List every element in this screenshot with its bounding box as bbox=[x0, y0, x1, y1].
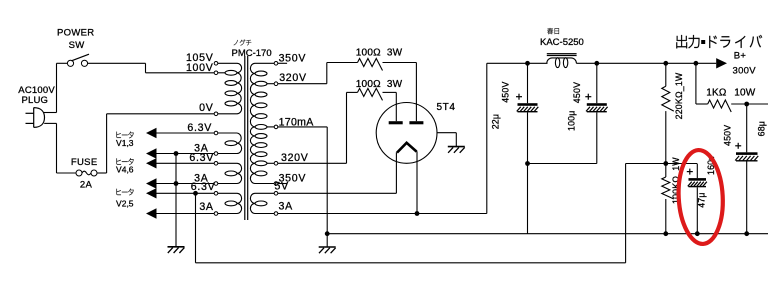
tube U1 anode plate right bbox=[409, 121, 423, 124]
heater tap arrow 3 bbox=[146, 158, 157, 168]
junction 1k branch bbox=[694, 61, 699, 66]
svg-text:V2,5: V2,5 bbox=[116, 199, 134, 209]
junction CT / ground bus bbox=[325, 231, 330, 236]
wire 350V top stub bbox=[278, 62, 287, 64]
wire 170mA center tap to ground bbox=[278, 126, 327, 128]
svg-text:5V: 5V bbox=[275, 180, 290, 192]
transformer T1 primary terminals bbox=[214, 62, 218, 66]
resistor R4 100KΩ 1W bbox=[665, 164, 667, 178]
junction R4 / ground bus bbox=[663, 231, 668, 236]
wire plug-top to switch bbox=[57, 62, 68, 64]
wire heater tap 1 bbox=[157, 132, 215, 134]
label heater ヒータ V1,3 bbox=[116, 131, 133, 138]
ground (heater windings) bbox=[168, 246, 185, 248]
ground (tube shield) bbox=[448, 146, 465, 148]
arrow B+ output bbox=[716, 58, 727, 68]
wire filament right leg bbox=[416, 151, 418, 213]
heater tap arrow 5 bbox=[146, 188, 157, 198]
tube U1 5T4 envelope bbox=[376, 102, 437, 163]
wire heater bias vertical to bottom bus bbox=[195, 193, 197, 262]
svg-text:PMC-170: PMC-170 bbox=[232, 48, 272, 59]
transformer T1 secondary HV winding bbox=[250, 63, 255, 183]
junction 3A-1 / ground drop bbox=[174, 151, 179, 156]
wire bias node bbox=[626, 163, 697, 165]
transformer T1 secondary lead wires bbox=[255, 62, 274, 64]
junction 100u cap bbox=[594, 61, 599, 66]
wire plug-bottom to fuse bbox=[44, 122, 56, 124]
svg-text:SW: SW bbox=[69, 40, 85, 51]
connector P1 AC plug bbox=[34, 108, 45, 128]
fuse F1 bbox=[76, 170, 82, 176]
wire ground bus bbox=[327, 233, 768, 235]
transformer T1 primary winding 100V bbox=[237, 63, 242, 114]
label 出力・ドライバ bbox=[676, 35, 687, 48]
transformer T1 heater winding 3 bbox=[237, 193, 242, 213]
svg-text:3W: 3W bbox=[387, 79, 403, 90]
resistor R3 220KΩ 1W bbox=[665, 63, 667, 86]
junction C4 / ground bus bbox=[744, 231, 749, 236]
label heater ヒータ V2,5 bbox=[116, 189, 133, 196]
svg-text:B+: B+ bbox=[734, 51, 747, 62]
wire switch to 100V tap bbox=[88, 62, 146, 64]
junction 3A-2 / ground drop bbox=[174, 181, 179, 186]
junction 22u cap bbox=[525, 61, 530, 66]
wire heater tap 4 bbox=[157, 183, 215, 185]
heater tap arrow 6 bbox=[146, 208, 157, 218]
svg-text:450V: 450V bbox=[723, 125, 733, 146]
junction 6.3V-3 / bias drop bbox=[193, 191, 198, 196]
svg-text:68μ: 68μ bbox=[757, 121, 767, 136]
svg-text:100μ: 100μ bbox=[567, 110, 577, 131]
wire 3A to filament and B+ bbox=[278, 213, 487, 215]
heater tap arrow 2 bbox=[146, 148, 157, 158]
wire heater-bias bottom bus bbox=[196, 262, 626, 264]
svg-text:5T4: 5T4 bbox=[437, 102, 456, 113]
svg-text:300V: 300V bbox=[733, 66, 757, 77]
label heater ヒータ V4,6 bbox=[116, 158, 133, 165]
svg-text:3A: 3A bbox=[279, 201, 294, 213]
transformer T1 secondary 5V winding bbox=[250, 193, 255, 213]
transformer T1 heater winding 1 bbox=[237, 133, 242, 154]
capacitor C3 47u 160V bbox=[696, 164, 698, 179]
svg-text:3W: 3W bbox=[387, 48, 403, 59]
svg-text:1KΩ: 1KΩ bbox=[706, 87, 727, 98]
svg-text:3A: 3A bbox=[199, 201, 214, 213]
svg-text:450V: 450V bbox=[572, 82, 582, 103]
wire 350V bottom stub bbox=[278, 183, 287, 185]
junction 220k bbox=[663, 61, 668, 66]
svg-text:V4,6: V4,6 bbox=[116, 165, 134, 175]
svg-text:10W: 10W bbox=[734, 87, 756, 98]
svg-text:6.3V: 6.3V bbox=[191, 181, 216, 193]
wire bias to bottom bus bbox=[625, 164, 627, 263]
wire fuse to 0V tap bbox=[97, 172, 107, 174]
wire heater tap 3 bbox=[157, 162, 215, 164]
label 春日 KAC-5250 bbox=[547, 28, 559, 34]
svg-text:220KΩ_1W: 220KΩ_1W bbox=[674, 72, 684, 119]
wire heater-ground vertical bbox=[175, 154, 177, 247]
capacitor C1 22u 450V bbox=[527, 63, 529, 103]
tube U1 anode plate left bbox=[389, 121, 403, 124]
switch S1 (power) bbox=[67, 60, 73, 66]
annotation red circle bbox=[676, 149, 725, 245]
junction bias node bbox=[663, 161, 668, 166]
resistor R5 1KΩ 10W bbox=[695, 63, 697, 104]
wire B+ rail bbox=[487, 62, 548, 64]
svg-text:47μ: 47μ bbox=[696, 192, 706, 207]
svg-text:100Ω: 100Ω bbox=[356, 48, 381, 59]
svg-text:FUSE: FUSE bbox=[71, 157, 98, 168]
svg-text:320V: 320V bbox=[281, 152, 309, 164]
svg-text:6.3V: 6.3V bbox=[187, 122, 212, 134]
choke L1 KAC-5250 bbox=[547, 53, 577, 54]
junction C1/C2 bottoms bbox=[525, 161, 530, 166]
svg-text:350V: 350V bbox=[279, 52, 307, 64]
junction output cap bbox=[744, 102, 749, 107]
capacitor C4 68u 450V bbox=[746, 104, 748, 152]
svg-text:320V: 320V bbox=[279, 72, 307, 84]
transformer T1 secondary terminals bbox=[274, 62, 278, 66]
wire 320V top to R1 bbox=[278, 83, 327, 85]
svg-text:22μ: 22μ bbox=[491, 114, 501, 129]
svg-text:KAC-5250: KAC-5250 bbox=[540, 37, 584, 48]
wire grid/shield to ground bbox=[437, 132, 456, 134]
svg-text:2A: 2A bbox=[80, 180, 93, 191]
resistor R1 100Ω 3W bbox=[358, 59, 383, 71]
svg-text:6.3V: 6.3V bbox=[189, 152, 214, 164]
transformer T1 heater winding 2 bbox=[237, 163, 242, 183]
junction C3 / ground bus bbox=[695, 231, 700, 236]
svg-text:0V: 0V bbox=[199, 102, 214, 114]
wire R1 to anode bbox=[383, 62, 417, 64]
svg-text:POWER: POWER bbox=[57, 28, 94, 39]
wire heater tap 2 bbox=[157, 153, 215, 155]
wire heater tap 5 bbox=[157, 192, 215, 194]
wire R2 to anode bbox=[383, 91, 397, 93]
wire heater tap 6 bbox=[157, 213, 215, 215]
tube U1 filament bbox=[397, 143, 417, 153]
ground (HV center tap) bbox=[319, 246, 336, 248]
svg-text:V1,3: V1,3 bbox=[116, 138, 134, 148]
heater tap arrow 4 bbox=[146, 178, 157, 188]
resistor R2 100Ω 3W bbox=[358, 88, 383, 100]
label ノグチ PMC-170 bbox=[234, 39, 252, 45]
heater tap arrow 1 bbox=[146, 128, 157, 138]
wire 320V bottom to R2 bbox=[278, 162, 347, 164]
junction filament / 3A bbox=[415, 211, 420, 216]
transformer T1 primary lead wires bbox=[218, 62, 237, 64]
transformer T1 core bbox=[244, 56, 246, 220]
svg-text:100V: 100V bbox=[186, 62, 214, 74]
capacitor C2 100u 450V bbox=[596, 63, 598, 103]
svg-text:450V: 450V bbox=[501, 81, 511, 102]
svg-text:PLUG: PLUG bbox=[21, 95, 48, 106]
wire 5V to filament bbox=[278, 192, 397, 194]
